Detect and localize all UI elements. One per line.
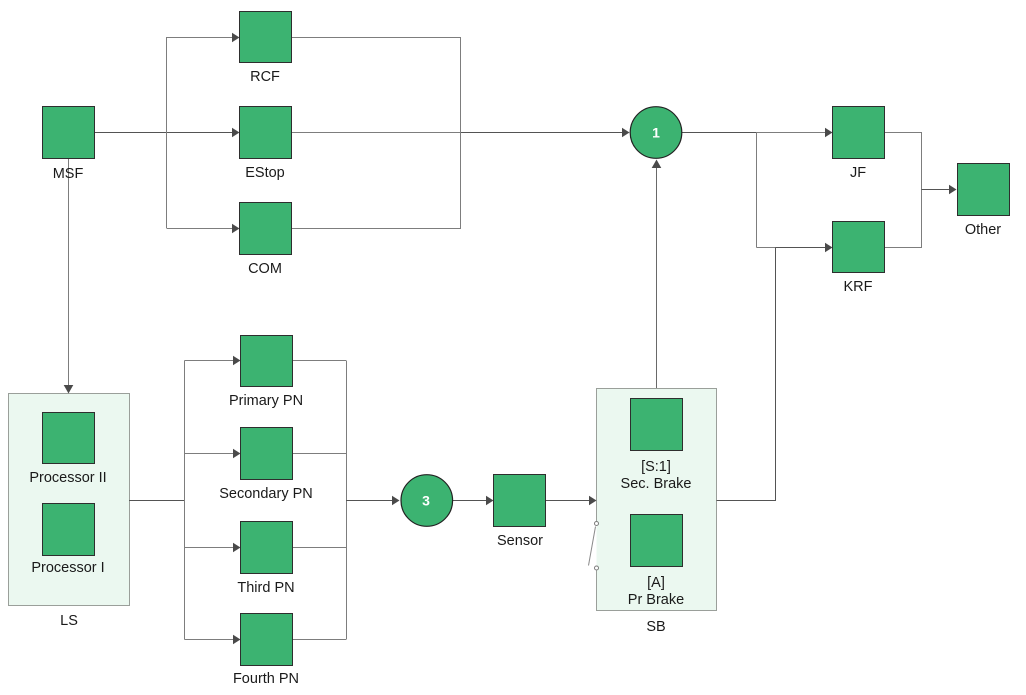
block EStop [240,107,292,182]
svg-text:MSF: MSF [53,166,84,182]
svg-text:JF: JF [850,165,866,181]
svg-text:Other: Other [965,222,1001,238]
svg-text:EStop: EStop [245,165,285,181]
block Processor II [29,413,106,487]
block JF [833,107,885,182]
block Primary PN [229,336,303,410]
wire Primary PN to right rail [292,360,346,362]
wire SB to riser [717,500,777,502]
svg-text:Sensor: Sensor [497,533,543,549]
svg-text:1: 1 [652,125,660,141]
block COM [240,203,292,278]
svg-text:[A]: [A] [647,575,665,591]
wire rail to node 1 with arrowhead [461,128,630,138]
group SB container [597,389,717,636]
wire right rail top group [460,37,462,228]
svg-text:Fourth PN: Fourth PN [233,671,299,687]
wire rail to RCF with arrowhead [167,33,240,43]
group LS container [9,394,130,630]
wire rail to Secondary PN with arrowhead [185,449,241,459]
svg-text:Third PN: Third PN [237,580,294,596]
wire KRF to right rail [884,247,922,249]
svg-text:Primary PN: Primary PN [229,393,303,409]
svg-text:Processor II: Processor II [29,470,106,486]
wire RCF to right rail [291,37,461,39]
node 1 [630,107,682,159]
wire COM to right rail [291,228,461,230]
wire split vertical [756,133,758,248]
svg-text:Sec. Brake: Sec. Brake [621,476,692,492]
wire split to JF with arrowhead [756,128,833,138]
svg-text:COM: COM [248,261,282,277]
block MSF [43,107,95,183]
wire EStop to right rail [291,132,461,134]
block Fourth PN [233,614,299,688]
wire rail to node 3 with arrowhead [346,496,400,506]
wire left rail bottom group [184,361,186,640]
block Secondary PN [219,428,313,503]
wire left rail top group [166,37,168,228]
svg-text:SB: SB [646,619,665,635]
block Pr Brake [628,515,684,609]
wire rail to Other with arrowhead [922,185,957,195]
node 3 [401,475,453,527]
block KRF [833,222,885,296]
svg-text:RCF: RCF [250,69,280,85]
svg-text:Secondary PN: Secondary PN [219,486,313,502]
wire MSF to EStop with arrowhead [94,128,240,138]
wire LS to left rail bottom group [129,500,184,502]
block Sensor [494,475,546,550]
wire JF to right rail [884,132,922,134]
wire Sensor to SB with arrowhead [546,496,597,506]
wire Third PN to right rail [292,547,346,549]
wire rail to Third PN with arrowhead [185,543,241,553]
wire right rail bottom group [346,361,348,640]
wire MSF down to LS with arrowhead [64,158,74,394]
wire rail to Primary PN with arrowhead [185,356,241,366]
wire right rail JF KRF [921,133,923,248]
wire Fourth PN to right rail [292,639,346,641]
switch contact upper [595,522,599,526]
svg-text:[S:1]: [S:1] [641,459,671,475]
block RCF [240,12,292,86]
svg-text:3: 3 [422,493,430,509]
switch contact lower [595,566,599,570]
wire split to KRF with arrowhead [757,243,833,253]
wire SB riser to KRF line [775,248,777,501]
wire node 1 to split [682,132,757,134]
svg-text:KRF: KRF [844,279,873,295]
wire node 3 to Sensor with arrowhead [452,496,494,506]
block Sec. Brake [621,399,692,493]
svg-text:LS: LS [60,613,78,629]
block Other [958,164,1010,239]
wire Secondary PN to right rail [292,453,346,455]
svg-text:Processor I: Processor I [31,560,104,576]
switch blade [589,527,596,566]
block Third PN [237,522,294,597]
wire SB top to node 1 with arrowhead [652,160,662,389]
wire rail to COM with arrowhead [167,224,240,234]
svg-text:Pr Brake: Pr Brake [628,592,684,608]
block Processor I [31,504,104,577]
wire rail to Fourth PN with arrowhead [185,635,241,645]
